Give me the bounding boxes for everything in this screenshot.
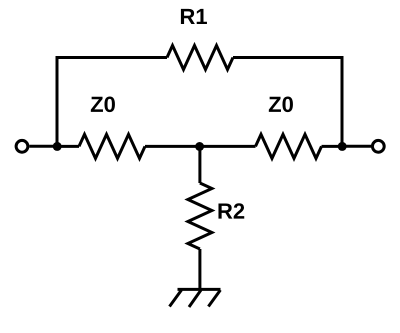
resistor R2 [188,183,212,249]
resistor R1 [167,46,233,70]
wire [29,145,57,148]
wire [198,147,201,184]
wire [233,58,342,147]
wire [57,145,79,148]
node (left junction) [53,142,62,151]
wire [57,58,167,147]
wire [145,145,200,148]
label R2 [218,203,244,218]
label R1 [181,9,207,24]
port P1 (left terminal) [16,140,28,152]
resistor Z0 (left) [79,134,145,158]
node (right junction) [338,142,347,151]
label Z0 (right) [269,97,293,113]
wire [322,145,343,148]
wire [198,249,201,289]
resistor Z0 (right) [256,134,322,158]
port P2 (right terminal) [372,140,384,152]
wire [200,145,256,148]
ground [170,289,221,307]
wire [342,145,371,148]
label Z0 (left) [91,97,115,113]
node (middle junction) [195,142,204,151]
